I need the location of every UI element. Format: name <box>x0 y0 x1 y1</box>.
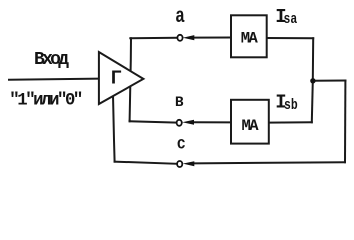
label Isa <box>275 6 297 28</box>
svg-text:sb: sb <box>284 97 298 114</box>
wire MA2 output <box>269 121 312 123</box>
svg-text:МА: МА <box>241 30 259 48</box>
wire MA1 output <box>267 37 314 39</box>
wire junction to right <box>313 80 346 82</box>
svg-text:Вход: Вход <box>34 50 69 70</box>
svg-text:МА: МА <box>242 117 260 135</box>
wire arrow b to MA2 <box>193 121 232 123</box>
wire bottom tap vertical (triangle to c row) <box>113 95 115 162</box>
wire node a horizontal <box>130 37 177 39</box>
block MA1 <box>231 15 267 57</box>
junction dot <box>310 78 315 83</box>
wire right vertical <box>344 81 346 163</box>
amplifier Г triangle <box>99 52 143 104</box>
arrow into c <box>183 161 195 166</box>
wire bottom right <box>194 162 345 163</box>
wire MA2 up to junction <box>312 81 313 123</box>
contact b <box>177 120 182 126</box>
svg-text:Г: Г <box>111 68 122 90</box>
contact a <box>177 35 182 41</box>
contact c <box>177 161 182 167</box>
wire node c left <box>115 162 177 164</box>
arrow into a <box>183 35 195 40</box>
wire node b horizontal <box>129 120 131 123</box>
svg-text:с: с <box>177 133 186 154</box>
wire apex output vertical <box>130 38 131 121</box>
svg-text:а: а <box>175 5 185 29</box>
wire MA1 down to junction <box>312 38 314 81</box>
svg-text:"1"или"0": "1"или"0" <box>9 92 83 111</box>
arrow into b <box>182 120 194 125</box>
svg-text:sa: sa <box>284 11 298 28</box>
block MA2 <box>231 100 269 144</box>
svg-text:в: в <box>175 91 184 112</box>
label Isb <box>275 91 298 113</box>
wire input <box>9 79 99 80</box>
wire arrow a to MA1 <box>193 37 232 39</box>
